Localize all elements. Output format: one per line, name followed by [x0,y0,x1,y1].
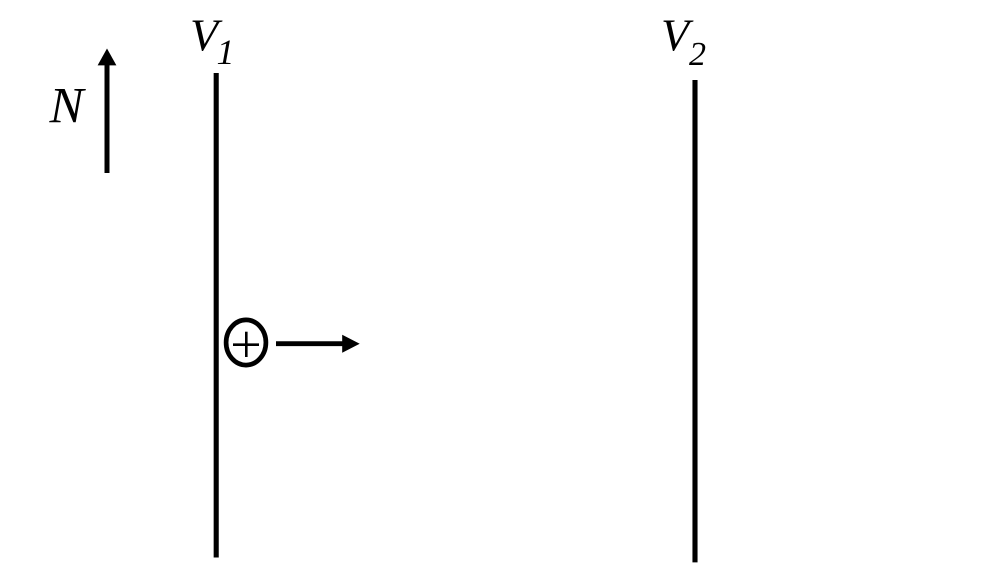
label V2 [661,10,706,73]
svg-text:1: 1 [217,32,235,72]
label V1 [190,10,235,72]
velocity arrow (rightward) [276,335,360,353]
arrow N (upward direction arrow) [98,49,117,174]
label N [49,79,87,135]
svg-text:N: N [49,79,87,135]
wire V1 (left vertical line) [214,73,219,558]
wire V2 (right vertical line) [692,80,697,562]
positive charge (circled plus) [226,320,266,365]
svg-text:2: 2 [689,36,706,73]
